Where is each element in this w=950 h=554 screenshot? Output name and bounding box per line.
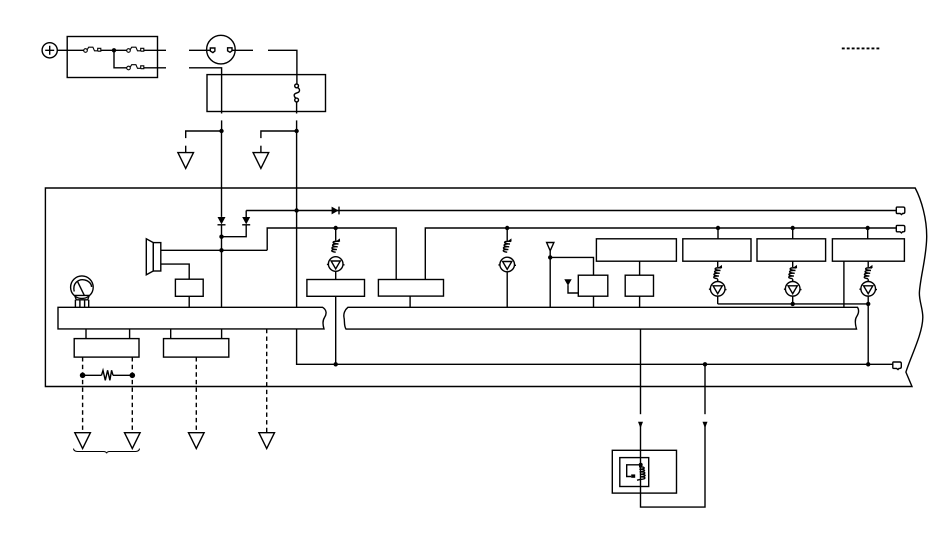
horn unit inner loop (627, 465, 641, 477)
node sensor dot 2 (130, 373, 136, 379)
wire from C1 pin 2 (232, 49, 253, 51)
node horn dot (639, 463, 643, 467)
arrow A6 (open triangle) (125, 433, 141, 449)
diode D1 (218, 217, 226, 225)
relay switch SW1 (294, 84, 299, 102)
wire A3 down to bus2 (549, 251, 551, 307)
indicator bulb L1 (71, 276, 94, 307)
arrow A7 (open triangle) (189, 433, 205, 449)
LED LED2 (498, 257, 516, 272)
wire D1 down (221, 225, 223, 307)
coil K2 (503, 238, 511, 252)
node J8 (505, 226, 509, 230)
node J2 (294, 129, 298, 133)
main ECU box outline (torn right edge) (45, 188, 926, 387)
horn unit outer box (612, 450, 676, 493)
coil K5 (864, 265, 872, 279)
bus1 stub to conn A pin1 (85, 329, 87, 339)
wire coil to LED4 (792, 279, 794, 282)
wire to connector C1 (189, 49, 211, 51)
arrow A1 (open triangle) (178, 153, 194, 169)
box A (578, 275, 608, 296)
led rail (718, 303, 869, 305)
box SB (speaker driver) (175, 279, 203, 296)
wire LED2 to bus2 (506, 272, 508, 308)
wire switch down (296, 102, 298, 114)
dashed wire below conn B (195, 357, 197, 433)
wire arrow to horn unit (640, 426, 642, 450)
diode D2 with bend from top rail (222, 211, 251, 237)
node J10 (716, 226, 720, 230)
node J3 (219, 235, 223, 239)
terminal T2 (896, 225, 905, 233)
wire LED1 to box1 (335, 271, 337, 279)
wire coil to LED5 (867, 279, 869, 282)
wire LED5 down to led rail (867, 296, 869, 304)
wire box A to bus2 (593, 296, 595, 307)
node J4 (219, 248, 223, 252)
horn coil (637, 467, 645, 480)
wire battery to fuse box (57, 49, 67, 51)
wire box2 to bus2 (409, 296, 411, 307)
wire box B to bus2 (639, 296, 641, 307)
dashed reference line top right (842, 47, 880, 49)
wire speaker bottom to box SB (161, 264, 189, 279)
wire LED3 down to led rail (717, 296, 719, 304)
node J12 (866, 226, 870, 230)
node: fuse junction (112, 48, 116, 52)
node J9 (548, 255, 552, 259)
rail y250 bend up to rail y228 (267, 228, 396, 280)
LED LED3 (709, 282, 727, 297)
wire branch left from J2 (261, 131, 297, 138)
node J7 (334, 362, 338, 366)
wire junction down (114, 50, 127, 68)
fuse box (67, 37, 157, 78)
wire F2 right (144, 49, 166, 51)
connector C1 pin 1 (210, 48, 215, 53)
node J16 (703, 362, 707, 366)
wire J1 down into main box (221, 131, 223, 217)
wire SB to bus1 (188, 296, 190, 307)
rail y228 right section (425, 228, 896, 280)
wire coil to LED3 (717, 279, 719, 282)
wire J16 down (704, 364, 706, 414)
arrow A4 (filled) into box A (564, 279, 578, 293)
connector C1 pin 2 (228, 48, 232, 53)
fuse F2 (127, 47, 144, 52)
wire LED4 down to led rail (792, 296, 794, 304)
wire J9 to box A (550, 257, 593, 275)
connector block B (164, 339, 229, 358)
box B (625, 275, 653, 296)
wire J6 down to coil (335, 228, 337, 241)
relay block R1 (596, 239, 676, 261)
wire into fuse F1 (67, 49, 83, 51)
wire to relay, bend down (268, 50, 297, 84)
wire F3 right (144, 67, 166, 69)
wire lower to bend (189, 68, 222, 114)
wire stub to arrow A2 (260, 146, 262, 153)
bus bar 2 (344, 307, 859, 329)
wire speaker top to J4 rail (161, 249, 267, 251)
coil K1 (332, 238, 340, 252)
relay block R3 (757, 239, 826, 261)
wire J8 down (506, 228, 508, 241)
antenna arrow A3 (small open triangle) (547, 243, 554, 251)
wire R4 plain stub to bus2 (843, 261, 845, 307)
wire through horn unit (640, 450, 642, 493)
connector C1 circle (207, 35, 236, 64)
box1 (307, 280, 365, 297)
horn speaker SP1 (146, 239, 161, 275)
arrow A2 (open triangle) (253, 153, 269, 169)
resistor RS1 between dots (83, 370, 133, 380)
wire J12 to R4 (867, 228, 869, 239)
arrow A9 (filled) (638, 422, 643, 429)
node J13 (791, 302, 795, 306)
node J15 (866, 362, 870, 366)
arrow A10 (filled) (703, 422, 708, 429)
wire J2 down into main box (296, 131, 298, 307)
horn unit mid box (620, 458, 649, 487)
bus1 stub to conn A pin2 (129, 329, 131, 339)
dashed wire below conn A pin2 (131, 357, 133, 433)
wire F1 to junction (101, 49, 127, 51)
relay block R4 (832, 239, 904, 261)
wire box1 down through bus gap (335, 296, 337, 364)
wire segment to node left (221, 120, 223, 131)
connector block A (74, 339, 139, 358)
diode D3 on top rail (332, 207, 339, 215)
node sensor dot 1 (80, 373, 86, 379)
coil K4 (789, 265, 797, 279)
bus1 stub to conn B pin1 (170, 329, 172, 339)
wire R4 down (867, 261, 869, 267)
arrow A5 (open triangle) (75, 433, 91, 449)
LED LED1 (327, 257, 345, 272)
wire led rail down to lower rail (867, 304, 869, 364)
dashed wire from bus1 (266, 329, 268, 433)
wire branch left from J1 (186, 131, 222, 138)
wire R1 to box B (639, 261, 641, 275)
battery B1 (42, 43, 57, 58)
bus bar 1 (58, 307, 326, 329)
relay box (207, 75, 326, 112)
LED LED4 (784, 282, 802, 297)
horn contact square (631, 474, 635, 477)
node J6 (334, 226, 338, 230)
wire R2 down (717, 261, 719, 267)
node J5 on top rail (294, 208, 298, 212)
fuse F3 (127, 65, 144, 70)
fuse F1 (84, 47, 101, 52)
terminal T1 (896, 207, 905, 215)
bus1 stub to conn B pin2 (221, 329, 223, 339)
coil K3 (714, 265, 722, 279)
top rail y210 (246, 210, 896, 212)
wire segment to node (296, 120, 298, 131)
wire relay line below bus1 (297, 329, 893, 364)
wire R3 down (792, 261, 794, 267)
wire stub to arrow A1 (185, 146, 187, 153)
node J1 (219, 129, 223, 133)
box2 (378, 280, 443, 297)
arrow A8 (open triangle) (259, 433, 275, 449)
LED LED5 (859, 282, 877, 297)
wire J11 to R3 (792, 228, 794, 239)
terminal T3 (893, 362, 902, 370)
brace under arrows A5 A6 (74, 449, 140, 454)
wire J10 to R2 (717, 228, 719, 239)
relay block R2 (683, 239, 751, 261)
dashed wire below conn A pin1 (82, 357, 84, 433)
node J14 (866, 302, 870, 306)
wire arrow to loop (641, 426, 706, 507)
wire bus2 down at 640 (640, 329, 642, 414)
node J11 (791, 226, 795, 230)
